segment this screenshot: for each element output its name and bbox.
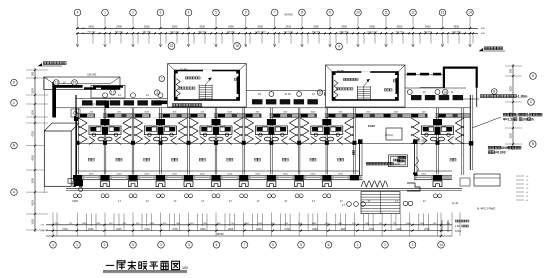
svg-text:2: 2 — [384, 243, 386, 247]
svg-text:900: 900 — [510, 68, 513, 73]
svg-text:3300: 3300 — [313, 24, 319, 28]
svg-text:1400 3300: 1400 3300 — [255, 32, 266, 34]
entrance duct loop — [389, 155, 408, 167]
svg-text:22: 22 — [73, 81, 77, 85]
svg-text:5: 5 — [272, 243, 274, 247]
grid bubble bottom 5 — [130, 242, 137, 249]
corridor south wall band — [76, 114, 470, 118]
svg-text:7: 7 — [161, 77, 163, 81]
svg-text:2050: 2050 — [89, 173, 95, 175]
svg-text:3: 3 — [160, 243, 162, 247]
svg-text:13: 13 — [441, 11, 445, 15]
svg-text:3300: 3300 — [200, 228, 206, 231]
svg-text:2: 2 — [104, 243, 106, 247]
grid bubble right C — [528, 99, 535, 106]
svg-text:4500: 4500 — [32, 200, 35, 206]
left end unit interior walls — [52, 82, 56, 118]
svg-text:2050: 2050 — [200, 173, 206, 175]
grid bubble top 13 — [439, 9, 446, 16]
grid bubble left D — [11, 79, 18, 86]
entrance vestibule — [386, 128, 402, 140]
svg-text:108: 108 — [522, 118, 528, 122]
corridor north line — [53, 107, 471, 109]
svg-text:4200: 4200 — [32, 131, 35, 137]
grid bubble top 9 — [327, 9, 334, 16]
grid bubble bottom 6 — [325, 242, 332, 249]
grid bubble top 1 — [102, 9, 109, 16]
svg-text:Φ=1.2m: Φ=1.2m — [503, 118, 515, 122]
svg-text:6: 6 — [328, 243, 330, 247]
grid bubble top 3 — [157, 9, 164, 16]
grid bubble top 2 — [130, 9, 137, 16]
north band right section — [405, 87, 466, 89]
svg-text:2700: 2700 — [284, 228, 290, 231]
hall2 south label — [384, 89, 386, 91]
riser pipe column 105 — [103, 108, 105, 175]
svg-text:1800: 1800 — [228, 228, 234, 231]
svg-text:9: 9 — [329, 11, 331, 15]
svg-text:900 900: 900 900 — [115, 32, 124, 34]
right lower detail — [474, 174, 500, 186]
grid bubble left C — [11, 100, 18, 107]
furniture cluster at 216 — [190, 118, 243, 145]
svg-text:DN25: DN25 — [455, 230, 462, 233]
svg-text:48700: 48700 — [216, 232, 224, 236]
svg-text:800 750: 800 750 — [312, 32, 321, 34]
grid bubble bottom 3 — [158, 242, 165, 249]
svg-text:B: B — [493, 90, 495, 94]
svg-text:C5A 940: C5A 940 — [87, 74, 97, 77]
svg-text:3: 3 — [156, 91, 158, 95]
svg-text:4: 4 — [188, 11, 190, 15]
svg-text:3300: 3300 — [257, 24, 263, 28]
riser pipe column 243.7 — [242, 108, 244, 175]
svg-text:2050: 2050 — [117, 173, 123, 175]
grid bubble bottom 1 — [354, 242, 361, 249]
svg-text:(3.6m): (3.6m) — [385, 133, 393, 137]
svg-text:/h: /h — [531, 118, 534, 122]
svg-text:19#3: 19#3 — [72, 199, 78, 203]
north band mid section — [246, 90, 325, 92]
svg-text:2050: 2050 — [421, 173, 427, 175]
svg-text:100: 100 — [182, 266, 188, 270]
grid bubble right B — [530, 141, 537, 148]
grid bubble top 5 — [213, 9, 220, 16]
west extension line — [43, 78, 45, 193]
svg-text:3300: 3300 — [341, 24, 347, 28]
grid bubble top 7 — [271, 9, 278, 16]
svg-text:2400: 2400 — [425, 24, 431, 28]
svg-text:750 750: 750 750 — [87, 32, 96, 34]
svg-text:750 1400: 750 1400 — [170, 32, 180, 34]
riser pipe column 326.8 — [325, 108, 327, 175]
svg-text:-1.30m: -1.30m — [517, 95, 528, 99]
riser pipe column 188.5 — [187, 108, 189, 175]
grid bubble bottom 4 — [50, 242, 57, 249]
svg-text:1905: 1905 — [340, 228, 346, 231]
annotation heating inlet detail — [503, 113, 506, 116]
svg-text:14: 14 — [439, 243, 443, 247]
right end unit walls — [444, 68, 477, 88]
north bay left-mid — [91, 86, 125, 99]
circled note 15c — [336, 43, 343, 50]
svg-text:1500: 1500 — [32, 110, 35, 116]
right vertical dimension line — [512, 64, 514, 150]
svg-text:16: 16 — [235, 44, 239, 48]
svg-text:3300: 3300 — [369, 24, 375, 28]
svg-text:7: 7 — [274, 11, 276, 15]
svg-text:2050: 2050 — [144, 173, 150, 175]
svg-text:4: 4 — [77, 11, 79, 15]
svg-text:1: 1 — [76, 243, 78, 247]
svg-text:4500: 4500 — [32, 155, 35, 161]
left vertical dimension line — [34, 68, 36, 232]
south radiators — [73, 181, 82, 187]
mid room dividing line — [76, 143, 470, 145]
svg-text:3300: 3300 — [199, 24, 205, 28]
grid bubble bottom 2 — [101, 242, 108, 249]
svg-text:1900: 1900 — [32, 178, 35, 184]
stair hall 2 — [326, 65, 406, 107]
svg-text:1200 1400: 1200 1400 — [367, 32, 378, 34]
grid bubble bottom 14 — [438, 242, 445, 249]
svg-text:5: 5 — [215, 11, 217, 15]
furniture cluster at 437.5 — [411, 118, 464, 145]
svg-text:8: 8 — [301, 11, 303, 15]
riser pipe column 160.5 — [159, 108, 161, 175]
svg-text:2762: 2762 — [144, 228, 150, 231]
svg-text:2400: 2400 — [116, 24, 122, 28]
riser pipe column 299.1 — [297, 108, 299, 175]
svg-text:3025: 3025 — [311, 111, 317, 113]
svg-text:2700: 2700 — [424, 228, 430, 231]
grid bubble top 11 — [383, 9, 390, 16]
svg-text:5: 5 — [132, 243, 134, 247]
svg-text:7: 7 — [244, 243, 246, 247]
svg-text:150x80: 150x80 — [393, 164, 401, 166]
svg-text:1400 900: 1400 900 — [452, 32, 462, 34]
roof connector lines hall2 to right unit — [405, 74, 444, 76]
svg-text:3300 900: 3300 900 — [339, 32, 349, 34]
circled note 15b — [234, 43, 241, 50]
svg-text:B: B — [532, 142, 534, 146]
svg-text:4: 4 — [216, 243, 218, 247]
svg-text:(1-2): (1-2) — [452, 201, 458, 205]
svg-text:1500: 1500 — [510, 133, 513, 139]
bottom dimension band — [77, 213, 79, 237]
svg-text:4: 4 — [52, 243, 54, 247]
grid bubble right D — [530, 73, 537, 80]
svg-text:): ) — [527, 113, 528, 117]
site level flag label — [38, 63, 42, 66]
circled note 15a — [168, 43, 175, 50]
svg-text:2050: 2050 — [172, 173, 178, 175]
svg-text:3025: 3025 — [144, 111, 150, 113]
svg-text:795 800: 795 800 — [227, 32, 236, 34]
riser pipe column 354.4 — [353, 108, 355, 175]
left end unit south wall — [84, 87, 96, 89]
grid bubble top 8 — [299, 9, 306, 16]
riser pipe column 77.5 — [76, 108, 78, 175]
svg-text:2400: 2400 — [88, 24, 94, 28]
grid bubble bottom 3 — [409, 242, 416, 249]
svg-text:900: 900 — [32, 71, 35, 76]
stair hall 1 — [168, 64, 247, 108]
terrace edge lines — [66, 188, 462, 190]
svg-text:17: 17 — [111, 90, 115, 94]
svg-text:3300: 3300 — [397, 24, 403, 28]
west duct room — [71, 109, 80, 117]
grid bubble top 4 — [185, 9, 192, 16]
svg-text:12: 12 — [411, 11, 415, 15]
svg-text:3300: 3300 — [453, 24, 459, 28]
grid bubble left A — [11, 189, 18, 196]
site level flag label right — [479, 48, 483, 51]
svg-text:3300: 3300 — [172, 24, 178, 28]
svg-text:3300: 3300 — [510, 86, 513, 92]
grid bubble bottom 4 — [213, 242, 220, 249]
left end unit roof outline — [44, 77, 120, 90]
svg-text:2300: 2300 — [285, 24, 291, 28]
grid bubble top 12 — [410, 9, 417, 16]
grid bubble bottom 7 — [241, 242, 248, 249]
riser pipe column 216 — [214, 108, 216, 175]
riser pipe column 437.5 — [436, 108, 438, 175]
grid bubble top 14 — [467, 9, 474, 16]
svg-text:2050: 2050 — [338, 173, 344, 175]
svg-text:4: 4 — [338, 45, 340, 49]
svg-text:(EL.990): (EL.990) — [417, 140, 426, 143]
svg-text:12: 12 — [318, 91, 322, 95]
svg-text:15: 15 — [170, 44, 174, 48]
svg-text:1905: 1905 — [116, 228, 122, 231]
svg-text:2762: 2762 — [62, 228, 68, 231]
svg-text:2050: 2050 — [283, 173, 289, 175]
grid bubble bottom 8 — [298, 242, 305, 249]
sw porch — [77, 177, 84, 186]
svg-text:3: 3 — [412, 243, 414, 247]
south wall band — [82, 176, 452, 180]
furniture cluster at 326.8 — [300, 118, 353, 145]
svg-text:N: 4P2.2 RWD: N: 4P2.2 RWD — [477, 207, 495, 211]
svg-text:3300: 3300 — [256, 228, 262, 231]
svg-text:3025: 3025 — [394, 111, 400, 113]
stair hall 1 label — [172, 104, 175, 107]
grid bubble bottom 1 — [74, 242, 81, 249]
west outer wall — [75, 95, 77, 186]
svg-text:1905: 1905 — [88, 228, 94, 231]
grid bubble left B — [11, 142, 18, 149]
top dimension band — [76, 27, 478, 29]
svg-text:F.DN: F.DN — [368, 124, 375, 128]
svg-text:900 600: 900 600 — [198, 32, 207, 34]
svg-text:3300: 3300 — [228, 24, 234, 28]
south heating pipe — [76, 170, 359, 172]
svg-text:i=0.003: i=0.003 — [494, 151, 505, 155]
svg-text:2700: 2700 — [172, 228, 178, 231]
svg-text:21: 21 — [54, 81, 58, 85]
svg-text:14: 14 — [468, 11, 472, 15]
riser pipe column 133 — [131, 108, 133, 175]
svg-text:1:50: 1:50 — [455, 225, 460, 228]
svg-text:18: 18 — [443, 90, 447, 94]
grid bubble bottom 5 — [270, 242, 277, 249]
circled labels in left unit — [53, 80, 59, 86]
svg-text:2: 2 — [132, 11, 134, 15]
svg-text:1500: 1500 — [32, 219, 35, 225]
svg-text:3300: 3300 — [312, 228, 318, 231]
entrance SE wall wrap — [407, 183, 420, 191]
svg-text:3300: 3300 — [144, 24, 150, 28]
riser pipe column 271.4 — [270, 108, 272, 175]
drawing title 一层采暖平面图 — [106, 264, 114, 266]
svg-text:787 795: 787 795 — [143, 32, 152, 34]
svg-text:11: 11 — [384, 11, 388, 15]
grid bubble top 6 — [243, 9, 250, 16]
svg-text:2050: 2050 — [255, 173, 261, 175]
svg-text:3300: 3300 — [32, 88, 35, 94]
furniture cluster at 160.5 — [134, 118, 187, 145]
svg-text:2050: 2050 — [311, 173, 317, 175]
grid bubble bottom 2 — [382, 242, 389, 249]
svg-text:1905: 1905 — [396, 228, 402, 231]
annotation condensate pipe — [480, 95, 483, 98]
svg-text:3025: 3025 — [227, 111, 233, 113]
svg-text:6: 6 — [188, 243, 190, 247]
grid bubble top 10 — [355, 9, 362, 16]
west exterior prism — [44, 131, 71, 186]
annotation supply main — [488, 146, 491, 149]
svg-text:1: 1 — [104, 11, 106, 15]
grid bubble top 4 — [74, 9, 81, 16]
svg-text:2762: 2762 — [369, 228, 375, 231]
svg-text:3: 3 — [160, 11, 162, 15]
svg-text:600 1200: 600 1200 — [284, 32, 294, 34]
south entrance with steps — [359, 139, 361, 178]
svg-text:1: 1 — [357, 243, 359, 247]
svg-text:10-88: 10-88 — [180, 68, 187, 72]
valve circle pairs — [74, 194, 78, 198]
furniture cluster at 271.4 — [245, 118, 298, 145]
svg-text:40700: 40700 — [284, 13, 293, 17]
svg-text:8: 8 — [300, 243, 302, 247]
grid bubble bottom 6 — [186, 242, 193, 249]
svg-text:B: B — [13, 144, 15, 148]
north band left section — [76, 98, 167, 100]
svg-text:20-88: 20-88 — [337, 69, 344, 73]
svg-text:10: 10 — [356, 11, 360, 15]
svg-text:6: 6 — [245, 11, 247, 15]
furniture cluster at 105 — [79, 118, 132, 145]
svg-text:2050: 2050 — [227, 173, 233, 175]
room labels — [88, 158, 91, 161]
